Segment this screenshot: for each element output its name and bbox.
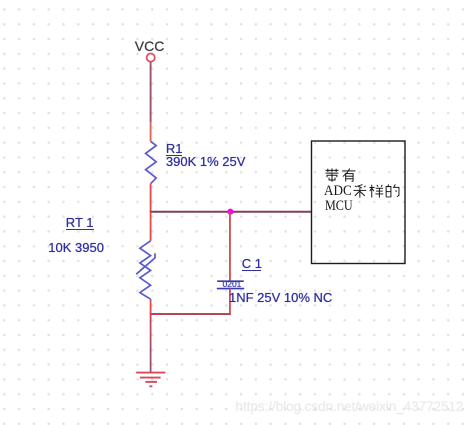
wire lower ground lead xyxy=(150,342,152,373)
underline of C 1 xyxy=(242,270,261,271)
glyph 带 xyxy=(326,169,339,182)
wire horizontal to MCU xyxy=(150,211,312,213)
wire node down to C1 top plate xyxy=(229,212,231,282)
ground symbol bar 1 xyxy=(136,372,165,374)
MCU text line 3: MCU xyxy=(325,199,353,214)
glyph 有 xyxy=(342,169,355,182)
label C 1 xyxy=(242,257,262,270)
wire / pin into R1 top xyxy=(150,122,152,142)
capacitor C1 bottom plate xyxy=(217,288,244,290)
wire RT1 bottom to bottom rail xyxy=(150,299,152,314)
label RT 1 xyxy=(66,216,94,229)
glyph 的 xyxy=(386,185,399,198)
label R1 xyxy=(166,142,183,155)
value 10K 3950 xyxy=(48,241,104,254)
glyph 采 xyxy=(353,185,366,198)
junction node dot xyxy=(227,209,233,215)
ground symbol bar 3 xyxy=(145,381,157,383)
MCU block U1 rectangle xyxy=(312,141,406,264)
wire C1 bottom plate down xyxy=(229,289,231,314)
footprint 0201 xyxy=(223,280,242,289)
MCU text line 1: 带有 (hand-drawn CJK) xyxy=(325,168,359,183)
thermistor RT1 zigzag body xyxy=(140,241,151,299)
wire VCC to R1 (upper segment) xyxy=(150,62,152,122)
wire down to ground xyxy=(150,314,152,342)
watermark xyxy=(236,400,464,413)
glyph 样 xyxy=(369,185,383,198)
wire R1 bottom to node row xyxy=(150,184,152,212)
value 390K 1% 25V xyxy=(166,155,246,168)
thermistor strike line xyxy=(136,253,155,274)
net label VCC xyxy=(135,39,165,53)
wire bottom horizontal xyxy=(150,313,231,315)
value 1NF 25V 10% NC xyxy=(229,291,332,304)
capacitor C1 top plate xyxy=(217,280,244,282)
underline of R1 xyxy=(166,155,183,156)
wire node row down to RT1 xyxy=(150,212,152,241)
resistor R1 zigzag body xyxy=(146,141,157,183)
ground symbol bar 2 xyxy=(140,377,161,379)
power symbol VCC port circle xyxy=(147,54,155,62)
underline of RT 1 xyxy=(66,229,94,230)
MCU text line 2: ADC采样的 xyxy=(324,184,352,199)
ground symbol bar 4 xyxy=(149,385,152,387)
